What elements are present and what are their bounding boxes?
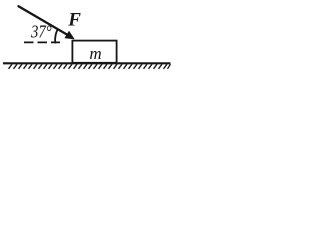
force line F: [19, 6, 71, 36]
svg-text:F: F: [67, 10, 81, 31]
ground line: [3, 62, 171, 64]
block m rectangle: [72, 41, 116, 63]
svg-text:37°: 37°: [30, 21, 52, 42]
angle arc: [55, 29, 58, 42]
svg-text:m: m: [89, 44, 101, 63]
ground hatching: [9, 64, 171, 69]
dashed horizontal reference line: [24, 41, 60, 43]
arrowhead of force F: [65, 31, 74, 39]
